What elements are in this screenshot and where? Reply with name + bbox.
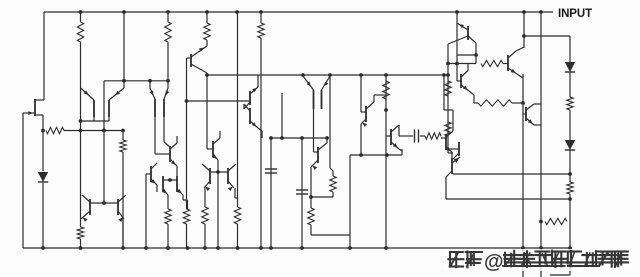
svg-text:INPUT: INPUT [558, 8, 592, 20]
svg-text:@: @ [484, 251, 504, 273]
